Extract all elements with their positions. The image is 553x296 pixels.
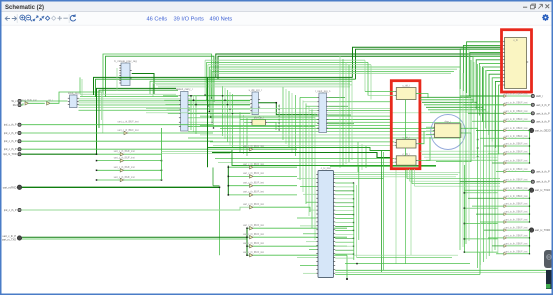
wire G out [335,241,353,243]
wire obuf out big [507,229,529,231]
wire G collector b [355,185,357,257]
wire vertical x207 upper [207,77,209,167]
buffer rst_inv [47,99,54,105]
junction G fan [353,206,354,207]
wire dark RXD [22,186,220,188]
toolbar icon: diamond disabled [52,16,56,20]
junction [464,207,466,209]
register b_count_reg U1 [114,59,137,86]
buffer OBUF row 7 [504,151,528,156]
wire H2 in1 [210,141,394,143]
scrollbar handle dark [544,250,553,268]
junction [529,189,531,191]
wire pass under R2 [330,166,436,168]
buffer OBUF row 17 [504,235,528,240]
wire lower right mesh elbow [414,169,416,186]
wire to grpB ibuf [228,166,249,168]
wire bottom long c [335,274,480,276]
wire collector stub [464,238,498,240]
junction [195,104,197,106]
wire net ipd_c_th_P [21,132,213,134]
wire G out [335,190,353,192]
junction dot [279,122,280,123]
window float button [531,4,536,9]
wire G in [300,185,316,187]
svg-text:uart_c_th_IBUF_inst: uart_c_th_IBUF_inst [243,203,264,206]
wire lower right mesh row [410,180,501,182]
toolbar icon: minus [63,17,67,19]
wire right bundle vertical [473,62,475,159]
wire mid bus right elbow [370,65,372,100]
wire right bundle vertical [491,105,493,253]
junction [190,95,192,97]
svg-text:ipd_rx_TXD: ipd_rx_TXD [3,153,16,156]
port LED_r [531,94,543,98]
rom tx_rom J1 [503,38,528,89]
port ipd_c_th_P row4 [4,148,21,152]
wire obuf feeder [496,253,504,255]
wire right bundle vertical [485,70,487,259]
wire I1 in2 [426,130,433,132]
wire riser to J [476,60,502,109]
svg-text:uart_tx_th_OBUF_inst: uart_tx_th_OBUF_inst [505,135,528,138]
toolbar icon: zoom in [20,15,26,21]
wire riser to J [486,71,502,129]
svg-text:ipd_c_th_P: ipd_c_th_P [4,140,17,143]
wire obuf feeder [484,145,504,147]
junction P1b [213,100,214,101]
wire dark corner x232 [232,150,436,166]
wire G in [309,249,316,251]
wire G in [297,217,316,219]
buffer uart_c_IBUF [243,182,264,188]
junction [529,145,530,146]
wire bottom sweep y257 [356,257,452,259]
wire from grpD ibuf [253,227,347,229]
wire mesh row [146,112,460,114]
wire net W_c [21,100,67,102]
junction [246,254,248,256]
wire fan row out [124,169,162,171]
port uart_b_th_P [531,170,550,174]
wire up from RXD [212,168,214,186]
wire mid bus [214,72,452,74]
wire I1 out1 [461,127,478,129]
rom char_rom H2 [395,137,418,149]
mux state_mux U3 [176,87,193,131]
buffer OBUF row 1 [504,101,528,106]
junction [464,251,466,253]
wire right mesh [422,101,477,103]
svg-text:state1_carry_i: state1_carry_i [176,87,193,91]
svg-text:uart_c_th_IBUF_inst: uart_c_th_IBUF_inst [243,224,264,227]
svg-text:uart_c_th_IBUF_inst: uart_c_th_IBUF_inst [243,172,264,175]
register r_count_reg U5 [315,89,331,133]
wire U2 up1 [79,77,81,94]
junction [246,227,248,229]
junction dot [279,129,280,130]
wire collector stub [464,251,498,253]
port ipd_c_th_P [4,123,21,127]
wire obuf out join [507,221,529,223]
wire G collector c [358,166,360,240]
wire right bundle vertical [494,110,496,250]
wire pass under R2 [325,171,460,173]
wire U3 pin feed [163,95,179,97]
wire mid bus right elbow [367,62,369,95]
wire G in [300,264,316,266]
junction [228,166,230,168]
wire mesh row [268,121,460,123]
title bar [1,1,552,12]
wire dark bus y77 [94,77,353,95]
wire from grpB ibuf [253,175,297,177]
wire dark riser x96 [97,88,177,154]
svg-text:uart_tx_th_OBUF_inst: uart_tx_th_OBUF_inst [505,243,528,246]
buffer uart fan IBUF [114,166,135,172]
wire mesh row [188,137,460,139]
wire G in [297,178,316,180]
wire G out [335,257,353,259]
buffer OBUF row 18 [504,243,528,248]
wire right mesh [426,106,483,108]
wire I1 out2 [436,133,471,162]
wire bottom sweep y255 [354,254,458,256]
toolbar icon: back arrow [5,16,10,20]
svg-text:uart_tx_th_OBUF_inst: uart_tx_th_OBUF_inst [505,203,528,206]
wire mesh row [158,86,350,88]
wire obuf out [507,104,531,106]
wire right mesh [420,96,471,98]
junction [276,102,278,104]
wire obuf feeder [496,171,504,173]
wire vertical x34x [339,56,341,168]
wire E1 out [267,122,276,130]
wire vertical x34x [345,62,347,164]
svg-text:uart_rx/RXD: uart_rx/RXD [3,186,17,189]
wire vertical [190,96,192,130]
port uart_b_th_P [531,180,550,184]
wire H2 in2 [213,144,394,146]
toolbar icon: diamond active [46,16,50,20]
svg-text:Freq_BUF_inst: Freq_BUF_inst [21,99,37,102]
wire riser to J [489,74,502,135]
wire right mesh [430,111,489,113]
wire U5 fanout [328,123,354,125]
wire dark into R2b [212,153,391,158]
wire vertical x411 [410,169,412,255]
junction [529,253,530,254]
wire fan row 1 out [124,153,162,155]
buffer OBUF row 9 [504,168,528,173]
wire vertical x117 [116,68,118,91]
wire U2 fanout [79,107,191,109]
svg-text:uart_c_th_IBUF_inst: uart_c_th_IBUF_inst [243,251,264,254]
wire U5 fanout [328,101,390,103]
junction G fan [353,198,354,199]
wire obuf row0 feeder long [466,95,504,97]
wire obuf feeder [460,181,504,183]
wire right mesh row [420,150,498,152]
wire G out [335,210,353,212]
wire U5 feed [306,105,317,107]
wire G out [335,253,353,255]
highlight marker red rectangle R2 [391,81,420,169]
wire G out upper [335,178,383,180]
wire H3 in2 [218,162,394,164]
buffer OBUF row 0 [504,93,528,98]
junction [477,147,479,149]
wire right bundle vertical [470,60,472,150]
wire vertical x396 [395,169,397,264]
buffer OBUF row 16 [504,227,528,232]
wire obuf feeder [488,237,504,239]
wire dark bus y79 [96,79,356,97]
port ipd_sw [4,208,21,212]
wire dark into R2 [208,148,391,151]
junction [96,153,98,155]
wire G out [335,233,353,235]
junction P1a [211,97,212,98]
wire U3 fanout [188,117,315,119]
wire pass under R2 [325,174,458,176]
toolbar icon: refresh [70,14,75,21]
port uart_tx_OE2O [529,128,550,132]
junction mid bus [204,94,205,95]
wire G out [335,237,353,239]
wire G out [335,245,353,247]
buffer uart_d_IBUF [243,242,264,248]
wire G out [335,229,353,231]
wire U3 fanout [188,126,315,128]
wire vertical x383 [383,152,385,270]
wire obuf feeder [468,112,504,114]
mux disp_mux I1 [433,121,463,138]
junction mid vertical [227,104,228,105]
wire down from grpD [346,255,348,279]
wire U2 fanout [80,96,178,98]
svg-text:uart_c_th_IBUF_inst: uart_c_th_IBUF_inst [114,166,135,169]
wire U2 fanout [79,102,251,104]
wire H2 to H3 vertical [405,148,407,156]
wire riser to J [499,85,502,155]
svg-text:ipd_c_th_P: ipd_c_th_P [4,132,17,135]
junction mid bus [211,122,212,123]
svg-text:uart_c_th_P: uart_c_th_P [3,235,17,238]
svg-text:uart_tx_th_OBUF_inst: uart_tx_th_OBUF_inst [505,219,528,222]
wire right mesh [428,109,486,111]
buffer OBUF row 11 [504,187,528,192]
buffer OBUF row 13 [504,203,528,208]
svg-text:uart_tx_TX0O: uart_tx_TX0O [535,229,551,232]
wire vertical to G [308,106,310,216]
wire G out [335,222,353,224]
wire obuf feeder [492,245,504,247]
buffer uart_d_IBUF [243,224,264,230]
svg-text:uart_tx_OE2O: uart_tx_OE2O [535,129,551,132]
toolbar icon: forward arrow [12,16,17,20]
wire obuf feeder [460,95,504,97]
rom char_rom H1 [395,85,418,100]
junction [529,153,530,154]
svg-text:b_minute_prev_reg: b_minute_prev_reg [114,59,137,63]
wire mesh row [220,128,460,130]
wire G in [306,201,316,203]
wire G in [309,209,316,211]
junction end dot [346,278,348,280]
port uart_b_th_P [531,112,550,116]
junction G fan [353,238,354,239]
wire obuf feeder [488,153,504,155]
wire net sw [21,207,249,210]
window close button [545,4,549,8]
wire right bundle vertical [462,73,464,247]
wire right mesh row [426,159,498,161]
wire fan row [97,169,121,171]
junction [161,179,163,181]
junction [219,187,221,189]
wire vertical x279 [278,104,280,130]
wire U2 fanout [79,100,251,102]
buffer uart fan IBUF [114,156,135,162]
buffer uart_c_IBUF [243,163,264,169]
buffer uart_d_IBUF [243,251,264,257]
wire obuf out join [507,205,529,207]
svg-text:uart_c_th_IBUF_inst: uart_c_th_IBUF_inst [243,163,264,166]
junction mid vertical [224,100,225,101]
svg-text:uart_c_th_IBUF_inst: uart_c_th_IBUF_inst [243,145,264,148]
wire riser x477 [477,128,479,156]
wire obuf feeder [480,137,504,139]
wire vertical mid2 [246,118,248,156]
wire top dark pair P2a [216,54,502,77]
junction [529,245,530,246]
junction [529,206,530,207]
wire vertical x36x [361,144,363,170]
wire from grpB ibuf [253,194,297,196]
wire obuf feeder [492,162,504,164]
wire lower right mesh row [412,183,500,185]
junction [96,170,98,172]
buffer OBUF row 15 [504,219,528,224]
wire obuf out [507,171,531,173]
wire inside R2 vertical [405,100,407,140]
buffer OBUF row 5 [504,135,528,140]
wire lower right mesh elbow [406,169,408,179]
svg-text:uart_tx_th_OBUF_inst: uart_tx_th_OBUF_inst [505,187,528,190]
buffer OBUF row 10 [504,178,528,183]
buffer OBUF row 8 [504,160,528,165]
wire to grpB ibuf [228,175,249,177]
wire fan row out [124,179,162,181]
wire net ipd_c_th_P [21,124,213,126]
wire mid bus [208,64,371,66]
junction mid bus [209,111,210,112]
buffer OBUF row 6 [504,143,528,148]
wire obuf out join [507,245,529,247]
wire G out [335,206,353,208]
wire U3 pin feed [168,112,179,114]
toolbar separator [16,14,18,23]
junction [228,194,230,196]
port ipd_c_th_P [4,131,21,135]
junction mid bus [210,116,211,117]
wire row y151 [162,151,233,153]
buffer fan IBUF 1 [114,150,135,156]
svg-text:Rst: Rst [13,104,17,107]
junction [529,229,531,231]
wire pass under R2 [325,176,456,178]
wire U3 pin feed [167,108,179,110]
buffer uart_c_IBUF [243,172,264,178]
wire vertical x28x [288,91,290,148]
wire top dark pair P3a [353,47,502,77]
junction [529,162,530,163]
junction mid vertical [222,95,223,96]
junction [529,221,530,222]
wire lower right mesh elbow [411,169,413,184]
wire vertical to G [302,100,304,192]
wire cluster join vertical [529,190,531,222]
buffer OBUF row 19 [504,250,528,255]
junction [529,214,530,215]
wire vertical x36x [357,142,359,172]
junction mid vertical [232,113,233,114]
junction [477,156,479,158]
junction [529,138,530,139]
wire U3 pin feed [165,104,179,106]
buffer ipd IBUF [118,129,139,135]
buffer OBUF row 12 [504,195,528,200]
wire right bundle vertical [465,48,467,245]
port W_c [12,99,22,103]
wire bus y83 [153,83,350,96]
wire riser to J [470,53,502,96]
svg-text:uart_tx_th_OBUF_inst: uart_tx_th_OBUF_inst [505,168,528,171]
junction [161,160,163,162]
svg-text:uart_c_th_IBUF_inst: uart_c_th_IBUF_inst [114,176,135,179]
wire right bundle vertical [488,100,490,256]
wire bottom long b [335,271,553,273]
svg-text:uart_tx_TX1O: uart_tx_TX1O [535,189,551,192]
wire row4 buffered [253,148,297,150]
wire riser to J [483,67,502,122]
wire vertical x405 [405,169,407,264]
wire vertical x28x [295,95,297,156]
junction G fan [353,230,354,231]
svg-text:ipd_c_th_P: ipd_c_th_P [4,124,17,127]
wire top pair P1a [103,54,212,98]
buffer Freq_BUF_inst [21,99,37,105]
wire right mesh row [422,153,498,155]
toolbar separator 2 [68,14,70,23]
wire vertical [195,96,197,134]
svg-text:uart_c_th_IBUF_inst: uart_c_th_IBUF_inst [118,121,139,124]
wire G in [303,193,316,195]
buffer OBUF row 2 [504,110,528,115]
junction G fan [353,222,354,223]
wire U2 fanout [79,109,191,111]
svg-text:uart_tx_th_OBUF_inst: uart_tx_th_OBUF_inst [505,178,528,181]
port uart_b_th_P [531,103,550,107]
wire right mesh [420,99,474,101]
wire vertical to G [311,109,313,228]
wire mid bus left elbow [207,65,209,106]
wire fan row out [124,160,162,162]
wire G in [303,233,316,235]
wire obuf feeder [468,197,504,199]
buffer uart fan IBUF [114,176,135,182]
